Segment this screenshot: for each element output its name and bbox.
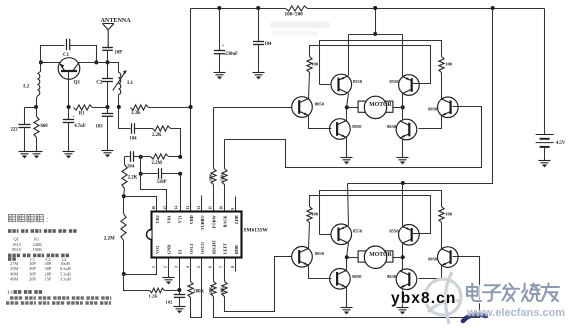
capacitor 230uF: [214, 9, 238, 73]
text heading: [9, 215, 49, 225]
wire: [93, 107, 108, 109]
decorative: [270, 22, 330, 36]
svg-text:8550: 8550: [389, 79, 399, 84]
resistor 3.3K: [131, 105, 149, 116]
text note line: [8, 254, 69, 258]
svg-text:SM6135W: SM6135W: [244, 228, 269, 234]
capacitor C2: [96, 63, 113, 108]
ground: [253, 73, 265, 80]
wire RIGHT route: [214, 257, 480, 318]
node Q1 base: [67, 105, 71, 109]
svg-text:7: 7: [219, 266, 224, 268]
resistor 2.2M: [104, 197, 126, 275]
svg-text:9018: 9018: [12, 247, 22, 252]
wire pin1: [124, 258, 157, 275]
wire: [119, 108, 131, 129]
svg-text:3.3K: 3.3K: [131, 111, 141, 116]
IC U1 SM6135W body: [147, 212, 242, 258]
wire: [402, 244, 404, 258]
wire Q1 emitter: [41, 62, 60, 64]
wire collector node: [79, 62, 119, 64]
decorative watermark text: [467, 284, 559, 302]
svg-text:104: 104: [129, 136, 137, 141]
wire VDD vertical: [190, 9, 192, 212]
resistor 660: [34, 108, 48, 152]
transistor 8050 (low right): [387, 119, 417, 140]
wire pin8 stub: [235, 258, 237, 272]
node: [106, 60, 110, 64]
text table: [8, 257, 72, 282]
node: [401, 181, 405, 185]
svg-text:1.2K: 1.2K: [149, 293, 159, 298]
resistor 10K (pin6): [208, 258, 216, 297]
svg-text:8050: 8050: [387, 274, 397, 279]
wire: [402, 35, 404, 77]
node: [401, 255, 405, 259]
node: [373, 6, 377, 10]
node: [177, 288, 181, 292]
node: [122, 272, 126, 276]
wire: [402, 184, 404, 227]
svg-text:104: 104: [127, 164, 135, 169]
wire: [171, 129, 181, 158]
transistor 8050 (right driver): [428, 247, 458, 268]
wire: [149, 107, 191, 109]
resistor 200K: [188, 258, 205, 318]
transistor 8050 (left driver): [292, 246, 325, 267]
wire: [309, 266, 332, 279]
wire: [402, 258, 404, 271]
svg-text:10K: 10K: [219, 286, 224, 294]
decorative watermark url: [466, 307, 565, 319]
decorative brush stroke: [463, 315, 486, 321]
node: [139, 155, 143, 159]
ground: [102, 151, 114, 158]
svg-text:L1: L1: [8, 290, 14, 295]
wire: [125, 156, 130, 158]
wire: [346, 138, 348, 158]
svg-text:RDB: RDB: [234, 245, 239, 254]
wire: [134, 156, 141, 158]
svg-text:15: 15: [162, 206, 167, 210]
svg-text:1: 1: [151, 266, 156, 268]
capacitor 104: [127, 151, 135, 169]
svg-text:8550: 8550: [353, 79, 363, 84]
node: [217, 6, 221, 10]
resistor 1.2K: [149, 288, 165, 298]
svg-text:8: 8: [230, 266, 235, 268]
resistor 100 (right): [439, 57, 453, 73]
svg-text:100~500: 100~500: [285, 12, 304, 18]
svg-text::: :: [46, 217, 48, 224]
svg-text:15P: 15P: [45, 276, 52, 281]
wire: [162, 173, 181, 175]
resistor 10K (pin7): [219, 258, 227, 297]
svg-text:10P: 10P: [115, 51, 123, 56]
svg-text:8050: 8050: [387, 124, 397, 129]
decorative watermark logo: [425, 272, 461, 324]
svg-text:Q1: Q1: [74, 80, 81, 86]
inductor L2: [23, 63, 40, 108]
motor M: [347, 246, 403, 268]
node VDD junction: [189, 105, 193, 109]
ground: [397, 308, 409, 315]
resistor 2.2K: [122, 157, 138, 197]
svg-text:3.3uH: 3.3uH: [60, 276, 72, 281]
wire: [347, 94, 349, 108]
svg-text:49M: 49M: [10, 276, 18, 281]
capacitor 104: [253, 9, 272, 73]
wire cross: [320, 191, 442, 235]
svg-text:ANTENNA: ANTENNA: [101, 18, 132, 24]
svg-text:TURBO: TURBO: [200, 215, 205, 231]
svg-text:510P: 510P: [157, 180, 167, 185]
svg-text:Q1: Q1: [14, 237, 19, 242]
svg-text:10: 10: [219, 206, 224, 210]
svg-text:12: 12: [196, 206, 201, 210]
wire: [346, 258, 348, 271]
wire: [191, 8, 286, 10]
wire Q1 base: [68, 72, 70, 108]
transistor 8050 (low left): [330, 269, 362, 290]
transistor 8550 (left): [331, 74, 363, 95]
ground: [341, 158, 353, 165]
wire: [141, 173, 158, 175]
svg-text:+: +: [222, 42, 225, 47]
wire: [441, 223, 443, 249]
wire: [347, 243, 349, 258]
wire pin16: [124, 197, 157, 212]
wire pin9 stub: [235, 197, 237, 212]
capacitor 104: [129, 123, 137, 141]
svg-text:8550: 8550: [353, 229, 363, 234]
svg-text:L2: L2: [23, 85, 29, 90]
wire: [346, 108, 348, 121]
wire: [348, 184, 349, 226]
wire header: [349, 34, 403, 36]
wire pin15: [141, 174, 167, 212]
svg-text:EI: EI: [178, 249, 183, 254]
wire: [402, 108, 404, 121]
svg-text:14: 14: [174, 206, 179, 210]
svg-text:11: 11: [207, 206, 212, 210]
wire LEFT route: [225, 257, 292, 312]
svg-text:2: 2: [162, 266, 167, 268]
svg-text:104: 104: [264, 42, 272, 47]
svg-text:8050: 8050: [352, 274, 362, 279]
text note line: [8, 290, 43, 295]
svg-text:GND: GND: [166, 245, 171, 254]
svg-text:FORW: FORW: [211, 214, 216, 228]
wire: [402, 139, 404, 158]
svg-text:4.7uF: 4.7uF: [74, 124, 86, 129]
node: [178, 155, 182, 159]
wire FORW route: [214, 107, 292, 109]
svg-text:660: 660: [41, 124, 49, 129]
wire pin2: [168, 258, 170, 278]
svg-text:13: 13: [185, 206, 190, 210]
svg-text:2.2K: 2.2K: [152, 133, 162, 138]
node: [491, 6, 495, 10]
wire: [346, 288, 348, 308]
resistor 2.2M: [151, 154, 169, 166]
wire: [308, 8, 545, 10]
wire BACK route: [225, 107, 482, 168]
svg-text:100: 100: [445, 62, 453, 67]
capacitor 102: [165, 291, 185, 307]
node: [345, 255, 349, 259]
resistor 10K (pin10): [219, 140, 227, 212]
capacitor 4.7uF: [63, 108, 86, 152]
wire: [419, 117, 442, 129]
svg-text:10K: 10K: [219, 173, 224, 181]
svg-text:LDB: LDB: [234, 215, 239, 224]
wire: [402, 94, 404, 108]
svg-text:9: 9: [230, 208, 235, 210]
wire: [402, 288, 404, 308]
svg-text:R1: R1: [34, 237, 39, 242]
svg-text:C2: C2: [96, 81, 103, 86]
label SM6135W: [244, 228, 269, 234]
ground: [174, 307, 186, 314]
wire: [25, 107, 37, 109]
resistor 100 (right): [439, 207, 453, 223]
wire supply right: [348, 9, 493, 184]
wire: [41, 46, 65, 63]
wire: [165, 258, 180, 291]
resistor 2.2K: [152, 126, 171, 138]
svg-text:2.2K: 2.2K: [128, 176, 138, 181]
node: [106, 105, 110, 109]
capacitor 103: [96, 108, 114, 151]
svg-text:102: 102: [165, 299, 173, 304]
node: [139, 172, 143, 176]
inductor L1 (variable): [108, 63, 134, 108]
node: [94, 60, 98, 64]
svg-text:8050: 8050: [315, 251, 325, 256]
node: [345, 105, 349, 109]
wire base-right: [310, 46, 431, 84]
transistor Q1: [58, 58, 80, 86]
svg-text:VD1: VD1: [166, 215, 171, 223]
capacitor 10P: [102, 48, 122, 56]
svg-text:VD2: VD2: [155, 215, 160, 223]
svg-text:3: 3: [174, 266, 179, 268]
svg-text:222: 222: [11, 128, 19, 133]
wire: [135, 128, 153, 130]
svg-text:8050: 8050: [428, 256, 438, 261]
transistor 8550 (right): [389, 75, 419, 96]
ground: [539, 161, 551, 168]
svg-text:OSCO: OSCO: [200, 241, 205, 254]
svg-text:4: 4: [185, 266, 190, 268]
resistor 100 (left): [307, 57, 319, 73]
wire pin14: [180, 174, 182, 212]
svg-text:+: +: [73, 114, 76, 119]
IC pin numbers: [151, 206, 235, 268]
transistor 8050 (right driver): [428, 97, 458, 118]
resistor 10K (pin11): [208, 108, 216, 212]
ground: [214, 73, 226, 80]
svg-text:ybx8.cn: ybx8.cn: [391, 290, 456, 307]
svg-text:10K: 10K: [208, 173, 213, 181]
ground: [31, 152, 43, 159]
wire: [441, 73, 443, 99]
node: [39, 60, 43, 64]
svg-text:5: 5: [196, 266, 201, 268]
svg-text:VO2: VO2: [155, 246, 160, 254]
svg-text:VT1: VT1: [178, 215, 183, 223]
text table: [12, 237, 43, 253]
svg-text:10K: 10K: [208, 286, 213, 294]
wire base-left: [320, 234, 332, 236]
wire cross: [320, 41, 442, 85]
svg-text:MOTOR: MOTOR: [369, 252, 392, 258]
wire: [309, 223, 310, 249]
node: [34, 105, 38, 109]
transistor 8050 (left driver): [292, 97, 325, 118]
svg-text:103: 103: [96, 124, 104, 129]
node: [122, 194, 126, 198]
svg-text:RIGHT: RIGHT: [211, 240, 216, 254]
svg-text:100: 100: [311, 211, 319, 216]
svg-text:2.2M: 2.2M: [152, 161, 163, 166]
decorative watermark ybx8: [391, 290, 456, 307]
wire: [141, 156, 151, 158]
svg-text:100K: 100K: [33, 247, 44, 252]
svg-text:8550: 8550: [389, 229, 399, 234]
svg-text:230uF: 230uF: [225, 52, 238, 57]
svg-text:BACK: BACK: [223, 215, 228, 228]
svg-text:R1: R1: [79, 111, 85, 116]
transistor 8550 (left): [331, 224, 363, 245]
ground: [163, 278, 175, 285]
svg-text:LEFT: LEFT: [223, 243, 228, 254]
resistor R1: [74, 105, 93, 117]
wire: [140, 157, 142, 174]
svg-text:L1: L1: [127, 81, 133, 86]
capacitor 510P: [157, 168, 167, 185]
transistor 8550 (right): [389, 225, 419, 246]
motor M: [347, 96, 403, 118]
ground: [19, 152, 31, 159]
capacitor 222: [11, 108, 31, 152]
svg-text:8050: 8050: [315, 101, 325, 106]
svg-text:200K: 200K: [193, 289, 204, 294]
ground: [63, 152, 75, 159]
IC pin labels: [155, 214, 239, 254]
wire: [124, 275, 150, 291]
transistor 8050 (low right): [387, 269, 417, 290]
resistor 100~500: [285, 6, 308, 18]
wire: [169, 156, 181, 158]
transistor 8050 (low left): [330, 119, 362, 140]
svg-text:www.elecfans.com: www.elecfans.com: [466, 307, 565, 319]
wire pin12 stub: [201, 196, 203, 212]
ground: [397, 158, 409, 165]
ground: [341, 308, 353, 315]
wire base-left: [320, 84, 332, 86]
wire: [309, 73, 310, 99]
capacitor C1: [63, 39, 70, 58]
resistor 100 (left): [307, 207, 319, 223]
node: [178, 172, 182, 176]
svg-text:8050: 8050: [352, 124, 362, 129]
battery 4.5V: [536, 9, 566, 161]
svg-text:6: 6: [207, 266, 212, 268]
svg-text:100: 100: [311, 62, 319, 67]
wire: [107, 51, 109, 63]
svg-text:VDD: VDD: [189, 215, 194, 224]
antenna: [101, 18, 132, 47]
node: [401, 105, 405, 109]
svg-text:20P: 20P: [29, 276, 36, 281]
wire: [348, 35, 350, 76]
text note line: [8, 229, 77, 233]
node: [373, 32, 377, 36]
svg-text:100: 100: [445, 211, 453, 216]
svg-text:MOTOR: MOTOR: [369, 102, 392, 108]
svg-text:OSCI: OSCI: [189, 243, 194, 254]
node: [117, 105, 121, 109]
node: [256, 6, 260, 10]
text note paragraph: [6, 296, 111, 304]
wire: [419, 266, 442, 279]
svg-text:8050: 8050: [428, 107, 438, 112]
wire: [70, 46, 97, 63]
wire: [309, 116, 332, 129]
wire base-right: [310, 196, 431, 234]
svg-text:4.5V: 4.5V: [556, 141, 566, 146]
wire supply stub (upper bridge): [375, 9, 377, 35]
svg-text:16: 16: [151, 206, 156, 210]
svg-text:2.2M: 2.2M: [104, 236, 115, 241]
